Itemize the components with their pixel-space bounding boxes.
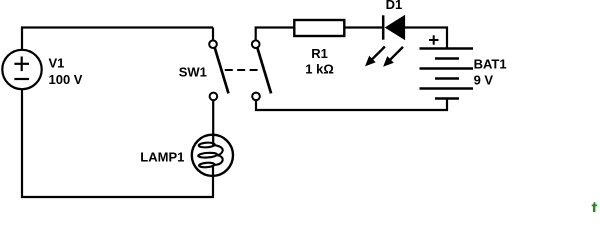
svg-text:1 kΩ: 1 kΩ [305, 61, 334, 76]
wire SW1 right pole bottom rail [256, 99, 447, 111]
svg-text:V1: V1 [49, 56, 65, 71]
wire stub to SW1 left pole top [212, 28, 214, 42]
filament coil loop 2 [198, 152, 217, 158]
switch SW1 [209, 40, 271, 100]
BAT1 plate 1 long [420, 47, 474, 49]
svg-text:R1: R1 [311, 46, 328, 61]
BAT1 plate 5 long [420, 87, 474, 89]
wire D1 to BAT1 [405, 28, 447, 49]
BAT1 plus sign [429, 39, 439, 41]
LED D1 [365, 15, 405, 67]
svg-text:LAMP1: LAMP1 [140, 150, 184, 165]
wire left vertical [21, 27, 23, 199]
SW1 right pole bottom terminal [252, 93, 260, 101]
SW1 left pole top terminal [209, 40, 217, 48]
wire R1 to D1 [344, 26, 383, 28]
BAT1 plate 4 short [435, 77, 459, 79]
filament bulge 1 [215, 145, 223, 155]
D1 triangle [386, 16, 405, 40]
voltage source V1 [2, 50, 41, 89]
D1 light arrow 2 [383, 47, 403, 67]
svg-text:t: t [592, 198, 598, 212]
svg-text:9 V: 9 V [474, 73, 494, 88]
svg-text:D1: D1 [386, 0, 403, 12]
D1 cathode bar [382, 15, 385, 39]
SW1 left pole bottom terminal [210, 93, 218, 101]
wire SW1 left pole to lamp [212, 100, 214, 146]
resistor R1 [294, 20, 344, 36]
wire bottom-left horizontal [21, 196, 214, 198]
filament coil loop 3 [199, 162, 215, 167]
wire SW1 right pole top to R1 [256, 28, 295, 41]
svg-text:BAT1: BAT1 [474, 56, 507, 71]
wire top-left horizontal [21, 26, 213, 28]
SW1 right blade [257, 48, 271, 94]
SW1 gang dashed link [225, 69, 258, 71]
D1 light arrow 1 [365, 47, 385, 67]
BAT1 plate 2 short [435, 57, 459, 59]
filament bulge 2 [214, 155, 222, 165]
wire lamp bottom [212, 166, 214, 198]
SW1 right pole top terminal [252, 40, 260, 48]
lamp LAMP1 [192, 135, 233, 177]
battery BAT1 [420, 35, 474, 98]
BAT1 plate 6 short [435, 97, 459, 99]
SW1 left blade [215, 48, 229, 94]
filament coil loop 1 [199, 142, 215, 148]
BAT1 plate 3 long [420, 67, 474, 69]
svg-text:SW1: SW1 [179, 65, 207, 80]
svg-text:100 V: 100 V [49, 72, 83, 87]
